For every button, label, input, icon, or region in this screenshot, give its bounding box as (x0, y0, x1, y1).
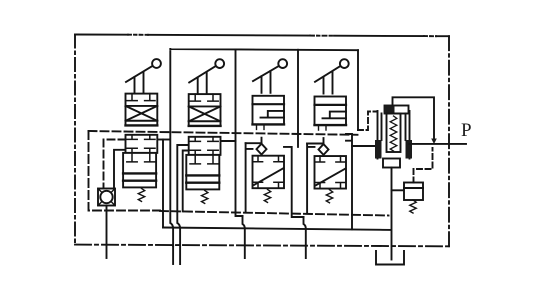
valve lever (189, 59, 224, 94)
valve V1 pilot element (3-position, X / blocked) (126, 94, 158, 126)
valve V3 load-check (diamond) (257, 138, 267, 155)
wire: valve2 left flank (183, 151, 189, 212)
enclosure border left edge (dash-dot) (74, 35, 76, 245)
valve V1 return spring (138, 188, 144, 201)
pilot relief valve U2 (404, 183, 423, 201)
valve V4 pilot element (proportional reducing) (315, 97, 347, 126)
relief valve right wall (406, 111, 410, 159)
valve V4 load-check (diamond) (319, 138, 329, 155)
wire: bank divider between valve 3 and 4 (297, 50, 299, 147)
wire: relief drain down to tank (391, 168, 393, 260)
wire: valve1 lower-left port staircase (114, 150, 126, 189)
wire: valve3 left flank (246, 143, 253, 212)
relief valve top cap (385, 106, 409, 114)
wire: inner box left edge below border (172, 246, 174, 264)
pilot valve spring (410, 200, 416, 213)
wire: valve4 right stubs and riser to collector (346, 134, 352, 229)
wire: relief top loop to P line (393, 97, 435, 139)
tank T1 (376, 251, 404, 265)
wire: valve3 diamond feed (246, 142, 262, 144)
check valve V5 (98, 189, 115, 206)
valve V3 return spring (264, 189, 270, 202)
relief valve U1 cartridge (375, 106, 412, 168)
enclosure border bottom edge (dash-dot) (75, 245, 449, 247)
valve V4 main element (throttling box) (315, 156, 347, 189)
valve V4 port stubs (319, 125, 327, 130)
wire: collector line to tank drop (163, 228, 391, 230)
valve V3 pilot element (proportional reducing) (253, 96, 285, 125)
valve V2 return spring (202, 190, 208, 203)
valve V2 pilot element (3-position, X / blocked) (189, 94, 221, 126)
wire: valve4 diamond feed (307, 143, 323, 145)
wire: valve4 left flank (307, 144, 314, 214)
wire: valve1 right stub to riser (158, 139, 170, 141)
valve V1 main element lower box (through-flow) (123, 153, 156, 188)
wire: dashed line into check valve (104, 140, 126, 189)
valve lever (315, 59, 349, 93)
valve bank inner box (170, 49, 358, 246)
wire: long dashed pilot line (89, 131, 358, 135)
valve V1 main element upper box (blocked ports) (126, 135, 158, 153)
valve V3 port stubs (257, 124, 265, 129)
wire: valve3 right stub and riser (284, 147, 304, 217)
wire: channel below border (243, 216, 245, 258)
wire: bank divider between valve 2 and 3 (235, 50, 237, 142)
wire: riser x=163 down to collector (162, 140, 164, 228)
valve lever (253, 59, 287, 93)
wire: check valve outlet below border (106, 206, 108, 259)
relief valve inner sleeve (387, 114, 401, 153)
relief valve spring (390, 116, 397, 151)
wire: branch to pilot valve (392, 189, 405, 191)
wire: dashed pilot to relief valve (358, 112, 377, 131)
enclosure border top edge (dash-dot) (75, 34, 128, 36)
wire: dashed remote control line (414, 148, 433, 183)
valve V3 main element (throttling box) (253, 156, 285, 189)
wire: channel below border (304, 217, 306, 258)
P supply line (410, 143, 467, 145)
wire: channel below border (pair left) (177, 145, 188, 264)
valve V2 main element upper box (blocked ports) (189, 137, 221, 155)
wire: supply line to relief valve (352, 145, 377, 147)
wire: long dashed drain line (160, 211, 389, 216)
valve V2 main element lower box (through-flow) (186, 155, 219, 190)
relief valve bottom seat (383, 159, 400, 168)
relief valve left wall (378, 111, 382, 159)
valve lever (126, 59, 161, 94)
wire: valve2 right stub and riser (221, 141, 243, 216)
svg-text:P: P (461, 120, 472, 141)
arrow onto P line (431, 139, 437, 145)
enclosure border right edge (dash-dot) (448, 36, 450, 246)
wire: dashed left branch down (89, 131, 161, 211)
valve V4 return spring (326, 190, 332, 203)
